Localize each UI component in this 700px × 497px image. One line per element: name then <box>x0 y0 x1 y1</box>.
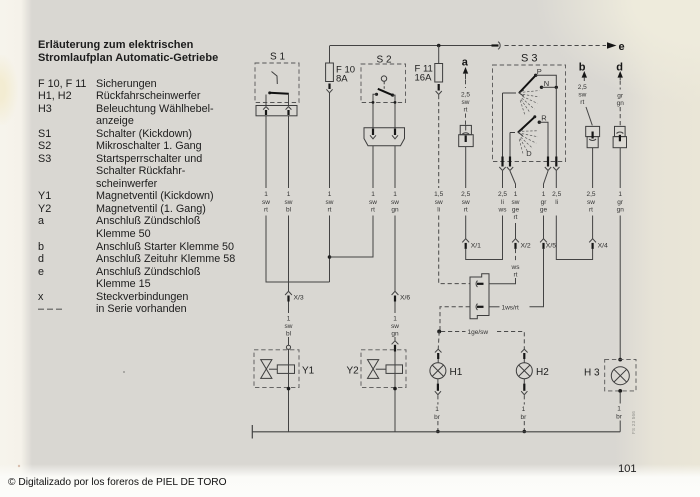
svg-text:li: li <box>437 207 440 214</box>
svg-text:a: a <box>462 57 469 69</box>
svg-text:X/5: X/5 <box>546 243 556 250</box>
svg-text:sw: sw <box>285 199 293 206</box>
svg-text:sw: sw <box>462 199 470 206</box>
wire: X/3 to Y1 (1 sw bl) <box>288 302 290 314</box>
svg-text:P: P <box>537 67 542 76</box>
wire: X/4 up to b plug (2,5 sw rt) <box>592 148 594 239</box>
wire: dashed bus to terminal e <box>505 45 607 47</box>
S3 bottom pins <box>501 157 503 167</box>
ground bus (common return) <box>252 431 620 433</box>
svg-text:br: br <box>434 414 441 421</box>
fuse F10 <box>329 46 331 64</box>
plug connector on a lead <box>460 125 471 134</box>
connector X/1 <box>462 239 469 243</box>
connector X/6 <box>392 291 399 295</box>
svg-text:1ge/sw: 1ge/sw <box>468 329 489 336</box>
wire: H1 to ground (br) <box>437 379 439 384</box>
svg-text:gn: gn <box>617 207 625 214</box>
svg-text:1ws/rt: 1ws/rt <box>502 305 520 312</box>
svg-text:R: R <box>541 114 547 123</box>
wire: dashed down into lamp H1 <box>438 332 439 350</box>
svg-text:2,5: 2,5 <box>586 191 595 198</box>
svg-text:d: d <box>616 62 623 74</box>
S3 wiper 2 arm and feed <box>510 132 515 134</box>
svg-text:rt: rt <box>514 272 518 279</box>
svg-text:sw: sw <box>326 199 334 206</box>
svg-text:S 1: S 1 <box>270 52 285 63</box>
node: F10 to S2 branch <box>328 255 332 259</box>
svg-text:1,5: 1,5 <box>434 191 443 198</box>
svg-text:sw: sw <box>391 199 399 206</box>
svg-text:1: 1 <box>618 191 622 198</box>
x plug connector on bus (pin + socket) <box>492 44 499 46</box>
svg-text:gr: gr <box>617 93 624 100</box>
svg-text:S 3: S 3 <box>521 53 538 65</box>
svg-text:sw: sw <box>578 92 586 99</box>
svg-text:1: 1 <box>514 191 518 198</box>
node: Y2 bottom junction <box>393 387 397 391</box>
svg-text:Y2: Y2 <box>347 366 360 377</box>
svg-text:gr: gr <box>617 199 624 206</box>
svg-text:X/2: X/2 <box>521 243 531 250</box>
connector X/2 <box>512 239 519 243</box>
svg-text:1: 1 <box>435 406 439 413</box>
svg-text:16A: 16A <box>415 73 433 84</box>
svg-text:sw: sw <box>285 323 293 330</box>
node: H3 bottom terminal <box>618 389 622 393</box>
svg-text:H1: H1 <box>450 367 463 378</box>
fuse F11 <box>438 46 440 64</box>
svg-text:sw: sw <box>435 199 443 206</box>
connector X/4 <box>589 239 596 243</box>
svg-text:li: li <box>501 199 504 206</box>
svg-text:sw: sw <box>512 199 520 206</box>
svg-text:Y1: Y1 <box>302 366 315 377</box>
svg-text:1: 1 <box>522 406 526 413</box>
S3 rays (fan 2) <box>522 130 538 133</box>
svg-text:X/6: X/6 <box>400 295 410 302</box>
svg-text:sw: sw <box>262 199 270 206</box>
svg-text:1: 1 <box>542 191 546 198</box>
svg-text:rt: rt <box>328 207 332 214</box>
wire: d dashed lead (gr gn) <box>619 81 621 90</box>
inline connector (2-pole plug housing) <box>470 274 489 319</box>
svg-text:1: 1 <box>287 191 291 198</box>
wire: H2 to ground (br) <box>523 379 525 384</box>
svg-text:rt: rt <box>464 207 468 214</box>
svg-text:X/3: X/3 <box>294 295 304 302</box>
svg-text:ge: ge <box>540 207 548 214</box>
wire: branch to S2 left <box>330 216 374 258</box>
S3 contact R <box>538 121 541 124</box>
wire: S2 output (1 sw gn) down to X/6 <box>394 146 396 291</box>
svg-text:1: 1 <box>371 191 375 198</box>
svg-text:li: li <box>555 199 558 206</box>
svg-text:bl: bl <box>286 331 292 338</box>
svg-text:gn: gn <box>391 331 399 338</box>
svg-text:rt: rt <box>589 207 593 214</box>
svg-text:gn: gn <box>617 100 625 107</box>
svg-text:1: 1 <box>617 406 621 413</box>
wire: top supply bus from F10 to plug <box>330 45 492 47</box>
wire: H3 to ground (1 br) <box>619 392 621 404</box>
svg-text:sw: sw <box>462 99 470 106</box>
svg-text:N: N <box>544 79 549 88</box>
node: H1/H2 branch point <box>437 330 441 334</box>
svg-text:rt: rt <box>514 214 518 221</box>
plug connector on d lead <box>615 126 626 136</box>
svg-text:rt: rt <box>371 207 375 214</box>
node: P/N junction <box>555 86 558 89</box>
svg-text:ws: ws <box>511 264 521 271</box>
wire: F11 dashed feed (1,5 sw li) in series version <box>438 95 440 188</box>
svg-text:bl: bl <box>286 207 292 214</box>
node: H3 top terminal <box>618 358 622 362</box>
wire: a dashed lead (2,5 sw rt) <box>465 80 467 88</box>
wire: S1 output (1 sw bl) down to X/3 <box>288 116 290 291</box>
svg-text:gn: gn <box>391 207 399 214</box>
svg-text:H2: H2 <box>536 367 549 378</box>
svg-text:2,5: 2,5 <box>578 84 587 91</box>
wire: a lead to X/1 (2,5 sw rt) <box>465 147 467 239</box>
svg-text:2,5: 2,5 <box>498 191 507 198</box>
svg-text:X/4: X/4 <box>598 243 608 250</box>
svg-text:H 3: H 3 <box>584 368 600 379</box>
svg-text:rt: rt <box>580 99 584 106</box>
svg-text:rt: rt <box>464 107 468 114</box>
plug connector on b lead <box>586 126 600 136</box>
svg-text:2,5: 2,5 <box>461 191 470 198</box>
node: bus junction above fuse F11 <box>437 44 441 48</box>
wire: X/2 to inline connector (ws rt) <box>515 249 517 262</box>
wire: connector to H1/H2 branch (dashed, in series) <box>440 307 470 332</box>
svg-text:br: br <box>616 414 623 421</box>
wire: X/6 to Y2 (1 sw gn) <box>394 302 396 314</box>
wire: through Y2 coil to ground <box>394 352 396 432</box>
svg-text:ws: ws <box>498 207 508 214</box>
wire: S3 w4 to X/4 (2,5 li) <box>556 171 592 260</box>
lamp H1 (Rückfahrscheinwerfer) <box>430 363 446 379</box>
wire: S3 w1 down (2,5 li ws) <box>502 171 504 188</box>
wire: branch to S1 left <box>266 216 330 283</box>
S3 wiper 1 arm and feed <box>503 92 517 94</box>
svg-text:sw: sw <box>587 199 595 206</box>
connector X/3 <box>285 291 292 295</box>
wire: X/1 to S3 wiper 1 (2,5 li ws) <box>466 171 503 260</box>
svg-text:8A: 8A <box>336 74 348 85</box>
lamp H2 (Rückfahrscheinwerfer) <box>516 363 532 379</box>
svg-text:rt: rt <box>264 207 268 214</box>
terminal e (arrow + label) <box>607 42 617 49</box>
svg-text:2,5: 2,5 <box>552 191 561 198</box>
svg-text:1: 1 <box>393 191 397 198</box>
wire: through Y1 coil to ground <box>288 349 290 431</box>
svg-text:e: e <box>619 41 625 53</box>
wire: F10 feed down (1 sw rt) <box>329 93 331 282</box>
svg-text:D: D <box>526 149 532 158</box>
S3 contact N <box>540 86 543 89</box>
svg-text:sw: sw <box>391 323 399 330</box>
wire: d lead to H3 (1 gr gn) <box>619 148 621 359</box>
svg-text:1: 1 <box>328 191 332 198</box>
solenoid valve Y1 (Kickdown) <box>254 350 299 388</box>
svg-text:sw: sw <box>369 199 377 206</box>
wire: slant into b plug <box>586 107 592 125</box>
svg-text:X/1: X/1 <box>471 243 481 250</box>
svg-text:1: 1 <box>393 316 397 323</box>
node: Y1 bottom junction <box>287 387 291 391</box>
svg-text:1: 1 <box>264 191 268 198</box>
wire: S3 w3 to X/5 (1 gr ge) <box>544 171 549 239</box>
connector X/5 <box>540 239 547 243</box>
wire: S1 left lead label (1 sw rt) <box>265 116 267 282</box>
svg-text:gr: gr <box>541 199 548 206</box>
svg-text:b: b <box>579 62 586 74</box>
wire: S3 w2 to X/2 (1 sw ge rt) <box>510 171 516 239</box>
S3 rays (other positions, fan 1) <box>523 91 540 93</box>
S3 contact P <box>534 74 537 77</box>
svg-text:ge: ge <box>512 207 520 214</box>
wire: 1ge/sw dashed branch to H2 <box>441 331 466 333</box>
svg-text:br: br <box>521 414 528 421</box>
svg-text:2,5: 2,5 <box>461 92 470 99</box>
wire: X/5 to inline connector (1ws/rt) <box>530 249 544 307</box>
wire: S2 left lead (1 sw rt) <box>372 146 374 257</box>
svg-text:1: 1 <box>287 316 291 323</box>
